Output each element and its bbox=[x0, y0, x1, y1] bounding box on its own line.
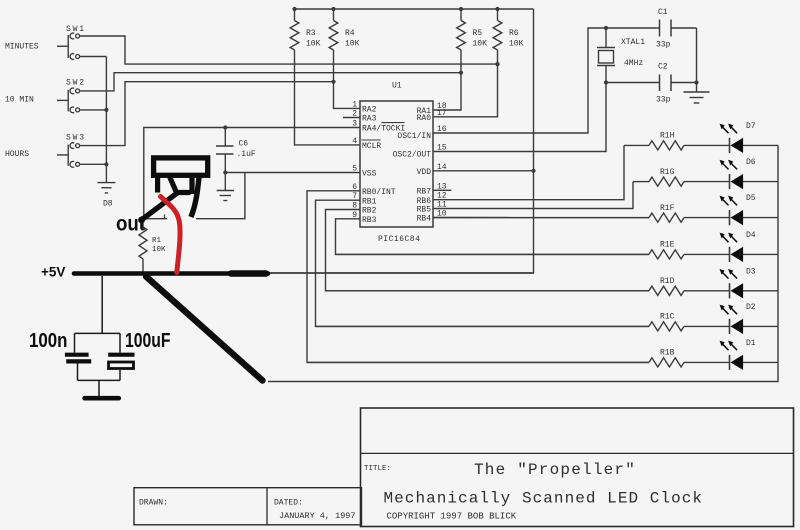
junction switch SW2 bottom bbox=[104, 108, 108, 112]
LED D3 bbox=[720, 269, 744, 298]
wire D1 to rail bbox=[743, 361, 778, 363]
svg-text:MCLR: MCLR bbox=[362, 142, 381, 151]
wire VDD pin14 bbox=[433, 170, 534, 172]
svg-text:R1: R1 bbox=[152, 237, 162, 245]
label MINUTES bbox=[5, 43, 39, 52]
IR sensor body (marker) bbox=[154, 158, 208, 175]
wire SW2 bottom contact bbox=[79, 109, 106, 111]
junction C6 top bbox=[223, 125, 227, 129]
op-amp U1 PIC16C84 body bbox=[360, 101, 433, 227]
svg-text:D7: D7 bbox=[746, 122, 756, 131]
wire R1G to D6 bbox=[684, 181, 730, 183]
svg-text:100uF: 100uF bbox=[125, 330, 171, 352]
svg-text:10K: 10K bbox=[509, 40, 524, 49]
wire +5V top rail bbox=[295, 8, 534, 10]
pin 2 label RA3 bbox=[352, 110, 376, 124]
+5V thick rail (marker) bbox=[74, 271, 268, 276]
svg-text:COPYRIGHT 1997 BOB BLICK: COPYRIGHT 1997 BOB BLICK bbox=[387, 512, 517, 522]
pin 13 stub RB7 bbox=[433, 189, 451, 191]
wire RB3 pin9 to D4 row bbox=[336, 219, 650, 255]
svg-text:R1G: R1G bbox=[660, 168, 675, 177]
wire OSC2 pin15 to crystal bottom bbox=[433, 83, 606, 152]
wire LED anode rail bbox=[268, 145, 778, 381]
svg-text:R6: R6 bbox=[509, 29, 519, 38]
resistor R4 bbox=[329, 9, 338, 50]
switch SW1 (MINUTES) bbox=[57, 25, 86, 59]
pin 3 label RA4/TOCKI bbox=[352, 120, 405, 134]
wire R1G row left bbox=[633, 181, 649, 183]
wire VSS pin5 to ground bbox=[225, 172, 360, 174]
pin 14 label VDD bbox=[417, 163, 447, 177]
pin 7 label RB1 bbox=[352, 192, 376, 206]
svg-text:VDD: VDD bbox=[417, 168, 432, 177]
wire D7 to rail bbox=[743, 144, 778, 146]
svg-text:4MHz: 4MHz bbox=[624, 59, 643, 68]
pin 15 label OSC2/OUT bbox=[393, 144, 447, 160]
svg-text:17: 17 bbox=[437, 109, 447, 118]
pin 12 label RB6 bbox=[417, 192, 447, 206]
label D4 bbox=[746, 231, 756, 240]
wire R1H to D7 bbox=[684, 144, 730, 146]
label R1G bbox=[660, 168, 675, 177]
resistor R1B bbox=[649, 358, 684, 367]
overline TOCKI bbox=[382, 122, 405, 124]
label D2 bbox=[746, 303, 756, 312]
junction VSS C6 bbox=[223, 170, 227, 174]
junction R3 top bbox=[292, 7, 296, 11]
label R1B bbox=[660, 349, 675, 358]
junction VDD bbox=[531, 169, 535, 173]
svg-text:D4: D4 bbox=[746, 231, 756, 240]
svg-text:PIC16C84: PIC16C84 bbox=[378, 235, 420, 244]
resistor R1C bbox=[649, 322, 684, 331]
LED D5 bbox=[720, 196, 744, 225]
resistor R1H bbox=[649, 141, 684, 150]
svg-text:DRAWN:: DRAWN: bbox=[139, 499, 168, 508]
ground below C6 bbox=[217, 173, 234, 201]
svg-text:R5: R5 bbox=[473, 29, 483, 38]
svg-text:10K: 10K bbox=[473, 40, 488, 49]
junction R5 top bbox=[459, 7, 463, 11]
label +5V bbox=[41, 265, 65, 280]
svg-text:R1H: R1H bbox=[660, 132, 675, 141]
wire cap branch tee bbox=[75, 333, 121, 352]
label D8 bbox=[103, 200, 113, 209]
label R6 bbox=[509, 29, 524, 49]
svg-text:100n: 100n bbox=[29, 330, 68, 352]
wire R1E row left bbox=[336, 253, 650, 255]
svg-text:C2: C2 bbox=[658, 63, 668, 72]
svg-text:RB6: RB6 bbox=[417, 197, 432, 206]
svg-text:out: out bbox=[116, 213, 145, 236]
svg-text:10K: 10K bbox=[345, 40, 360, 49]
label U1 bbox=[392, 82, 402, 91]
svg-text:RB5: RB5 bbox=[417, 206, 432, 215]
wire RB5 pin11 to D6 row bbox=[433, 182, 633, 209]
svg-text:C1: C1 bbox=[658, 8, 668, 17]
pin 17 label RA0 bbox=[417, 109, 447, 123]
resistor R6 bbox=[493, 9, 502, 50]
svg-text:D2: D2 bbox=[746, 303, 756, 312]
wire R4 to RA2 pin 1 bbox=[334, 50, 361, 108]
switch SW3 (HOURS) bbox=[57, 134, 86, 168]
svg-text:D1: D1 bbox=[746, 339, 756, 348]
wire R1B row left bbox=[307, 361, 649, 363]
junction crystal top bbox=[604, 26, 608, 30]
label 100n bbox=[29, 330, 68, 352]
LED D6 bbox=[720, 160, 744, 189]
LED D4 bbox=[720, 233, 744, 262]
wire D3 to rail bbox=[743, 290, 778, 292]
pin 11 label RB5 bbox=[417, 201, 447, 215]
svg-text:R4: R4 bbox=[345, 29, 355, 38]
label D7 bbox=[746, 122, 756, 131]
svg-text:RB2: RB2 bbox=[362, 207, 377, 216]
wire R1D to D3 bbox=[684, 290, 730, 292]
label 4MHz bbox=[624, 59, 643, 68]
wire R1H row left bbox=[624, 144, 649, 146]
wire RB6 pin12 to D7 row bbox=[433, 145, 624, 199]
pin 4 label MCLR bbox=[352, 137, 381, 151]
svg-text:D6: D6 bbox=[746, 158, 756, 167]
label 10 MIN bbox=[5, 96, 34, 105]
svg-text:R1F: R1F bbox=[660, 204, 675, 213]
svg-text:10K: 10K bbox=[152, 246, 166, 254]
label R1H bbox=[660, 132, 675, 141]
label C1 bbox=[656, 8, 671, 50]
svg-text:RA0: RA0 bbox=[417, 114, 432, 123]
svg-text:JANUARY 4, 1997: JANUARY 4, 1997 bbox=[279, 511, 356, 521]
wire R1D row left bbox=[326, 290, 650, 292]
IR sensor right leg bbox=[191, 177, 199, 217]
junction switch SW3 bottom bbox=[104, 162, 108, 166]
svg-text:RB7: RB7 bbox=[417, 188, 432, 197]
wire R1F to D5 bbox=[684, 217, 730, 219]
pin 16 label OSC1/IN bbox=[397, 125, 446, 141]
resistor R3 bbox=[290, 9, 299, 50]
pin 9 label RB3 bbox=[352, 211, 376, 225]
svg-text:33p: 33p bbox=[656, 41, 671, 50]
wire SW3 bottom contact bbox=[79, 163, 106, 165]
svg-text:Mechanically Scanned LED Clock: Mechanically Scanned LED Clock bbox=[384, 490, 704, 508]
wire D4 to rail bbox=[743, 253, 778, 255]
label R1D bbox=[660, 277, 675, 286]
svg-text:RB0/INT: RB0/INT bbox=[362, 188, 396, 197]
svg-text:OSC1/IN: OSC1/IN bbox=[397, 132, 431, 141]
wire SW2 top contact to RA1 bus bbox=[79, 73, 461, 91]
title text Mechanically Scanned LED Clock bbox=[384, 490, 704, 508]
pin 8 label RB2 bbox=[352, 202, 376, 216]
svg-text:.1uF: .1uF bbox=[237, 150, 256, 159]
svg-text:VSS: VSS bbox=[362, 170, 377, 179]
svg-text:The "Propeller": The "Propeller" bbox=[474, 461, 636, 479]
svg-text:SW2: SW2 bbox=[66, 79, 86, 88]
junction R5 bus2 bbox=[459, 71, 463, 75]
label JANUARY 4 1997 bbox=[279, 511, 356, 521]
svg-text:RB4: RB4 bbox=[417, 215, 432, 224]
wire RB1 pin7 to D2 row bbox=[316, 200, 650, 326]
resistor R1D bbox=[649, 286, 684, 295]
svg-text:RB3: RB3 bbox=[362, 216, 377, 225]
LED D1 bbox=[720, 341, 744, 370]
resistor R1G bbox=[649, 177, 684, 186]
svg-text:OSC2/OUT: OSC2/OUT bbox=[393, 151, 432, 160]
svg-text:SW3: SW3 bbox=[66, 134, 86, 143]
wire R1C to D2 bbox=[684, 325, 730, 327]
wire D5 to rail bbox=[743, 217, 778, 219]
svg-text:RA2: RA2 bbox=[362, 106, 377, 115]
label PIC16C84 bbox=[378, 235, 420, 244]
resistor R1F bbox=[649, 213, 684, 222]
junction R6 top bbox=[495, 7, 499, 11]
wire SW1 top contact to RA0 bus bbox=[79, 36, 498, 64]
wire RA4 pin3 to out node bbox=[144, 128, 360, 219]
IR sensor middle legs bbox=[170, 177, 192, 194]
wire caps bottom bbox=[78, 364, 121, 397]
svg-text:D3: D3 bbox=[746, 267, 756, 276]
wire R3 to MCLR pin 4 bbox=[295, 50, 361, 145]
copyright text bbox=[387, 512, 517, 522]
wire R1F row left bbox=[433, 217, 649, 219]
wire out node stub bbox=[144, 215, 167, 220]
wire R1C row left bbox=[316, 325, 650, 327]
svg-text:+5V: +5V bbox=[41, 265, 65, 280]
svg-text:RA3: RA3 bbox=[362, 115, 377, 124]
label HOURS bbox=[5, 150, 29, 159]
svg-text:10K: 10K bbox=[306, 40, 321, 49]
label R4 bbox=[345, 29, 360, 49]
svg-text:D8: D8 bbox=[103, 200, 113, 209]
svg-text:RB1: RB1 bbox=[362, 197, 377, 206]
LED D7 bbox=[720, 124, 744, 153]
label TITLE: bbox=[364, 465, 391, 473]
ground caps (marker) bbox=[85, 396, 119, 401]
label R1F bbox=[660, 204, 675, 213]
capacitor 100uF bbox=[108, 355, 134, 369]
svg-text:R1E: R1E bbox=[660, 241, 675, 250]
label D6 bbox=[746, 158, 756, 167]
svg-text:SW1: SW1 bbox=[66, 25, 86, 34]
label R1C bbox=[660, 313, 675, 322]
svg-text:R1D: R1D bbox=[660, 277, 675, 286]
wire D2 to rail bbox=[743, 325, 778, 327]
junction R6 bus1 bbox=[495, 62, 499, 66]
label C6 bbox=[237, 140, 256, 160]
wire R1E to D4 bbox=[684, 253, 730, 255]
LED D2 bbox=[720, 305, 744, 334]
svg-text:R1C: R1C bbox=[660, 313, 675, 322]
label XTAL1 bbox=[621, 38, 645, 47]
label DATED: bbox=[274, 499, 303, 508]
svg-text:TITLE:: TITLE: bbox=[364, 465, 391, 473]
IR sensor left leg bbox=[155, 175, 160, 193]
resistor R1 pullup bbox=[139, 219, 147, 272]
wire RB4 pin10 to D5 row bbox=[433, 217, 649, 219]
svg-text:DATED:: DATED: bbox=[274, 499, 303, 508]
crystal XTAL1 bbox=[597, 28, 615, 83]
wire switch common vertical to ground bbox=[105, 57, 107, 183]
wire SW3 top contact to RA2 bus bbox=[79, 82, 334, 146]
wire RB0 pin6 to D1 row bbox=[307, 191, 649, 363]
junction R4 bus3 bbox=[331, 80, 335, 84]
wire sensor gnd return bbox=[196, 173, 245, 219]
capacitor 100n bbox=[65, 355, 91, 362]
resistor R1E bbox=[649, 250, 684, 259]
pin 2 stub RA3 bbox=[343, 117, 360, 119]
svg-text:MINUTES: MINUTES bbox=[5, 43, 39, 52]
drawn dated box bbox=[134, 488, 362, 525]
pin 5 label VSS bbox=[352, 165, 376, 179]
title block divider bbox=[361, 452, 794, 454]
wire R5 to RA1 pin 18 bbox=[433, 50, 461, 110]
wire SW1 bottom contact bbox=[79, 56, 106, 58]
label D5 bbox=[746, 194, 756, 203]
pin 13 label RB7 bbox=[417, 182, 447, 196]
overline MCLR bbox=[362, 139, 381, 141]
label R5 bbox=[473, 29, 488, 49]
pin 18 label RA1 bbox=[417, 102, 447, 116]
wire D6 to rail bbox=[743, 181, 778, 183]
svg-text:R1B: R1B bbox=[660, 349, 675, 358]
junction C2 ground bbox=[694, 80, 698, 84]
svg-text:U1: U1 bbox=[392, 82, 402, 91]
wire thin +5V from rail to VDD line bbox=[266, 272, 534, 274]
red wire sensor to +5V bbox=[161, 197, 181, 273]
svg-text:R3: R3 bbox=[306, 29, 316, 38]
wire C1 right to ground rail bbox=[696, 28, 698, 83]
capacitor C1 bbox=[660, 20, 697, 37]
wire R1B to D1 bbox=[684, 361, 730, 363]
label R1E bbox=[660, 241, 675, 250]
wire VDD vertical to +5V bbox=[266, 9, 534, 273]
pin 1 label RA2 bbox=[352, 100, 376, 114]
wire OSC1 pin16 to crystal bbox=[433, 28, 659, 133]
svg-text:10 MIN: 10 MIN bbox=[5, 96, 34, 105]
label R1 bbox=[152, 237, 166, 254]
pin 6 label RB0/INT bbox=[352, 183, 396, 197]
title block box bbox=[361, 408, 794, 527]
svg-text:XTAL1: XTAL1 bbox=[621, 38, 645, 47]
label D3 bbox=[746, 267, 756, 276]
title text The Propeller bbox=[474, 461, 636, 479]
svg-text:C6: C6 bbox=[239, 140, 249, 149]
ground below switches bbox=[97, 183, 115, 193]
wire cap branch stem bbox=[101, 276, 103, 333]
IR sensor out lead diagonal bbox=[138, 194, 176, 224]
wire R6 to RA0 pin 17 bbox=[433, 50, 498, 117]
svg-text:HOURS: HOURS bbox=[5, 150, 29, 159]
switch SW2 (10 MIN) bbox=[57, 79, 86, 113]
label R3 bbox=[306, 29, 321, 49]
svg-text:4: 4 bbox=[352, 137, 357, 146]
capacitor C6 bbox=[216, 128, 234, 173]
label C2 bbox=[656, 63, 671, 105]
svg-text:1: 1 bbox=[352, 100, 357, 109]
label out bbox=[116, 213, 145, 236]
resistor R5 bbox=[457, 9, 466, 50]
junction crystal bottom bbox=[604, 80, 608, 84]
ground crystal caps bbox=[684, 83, 710, 104]
label 100uF bbox=[125, 330, 171, 352]
svg-text:D5: D5 bbox=[746, 194, 756, 203]
label D1 bbox=[746, 339, 756, 348]
pin 10 label RB4 bbox=[417, 210, 447, 224]
label DRAWN: bbox=[139, 499, 168, 508]
junction R4 top bbox=[331, 7, 335, 11]
svg-text:33p: 33p bbox=[656, 96, 671, 105]
wire RB2 pin8 to D3 row bbox=[326, 210, 650, 291]
capacitor C2 bbox=[606, 75, 697, 92]
thick diagonal wire to LED rail bbox=[146, 277, 263, 381]
